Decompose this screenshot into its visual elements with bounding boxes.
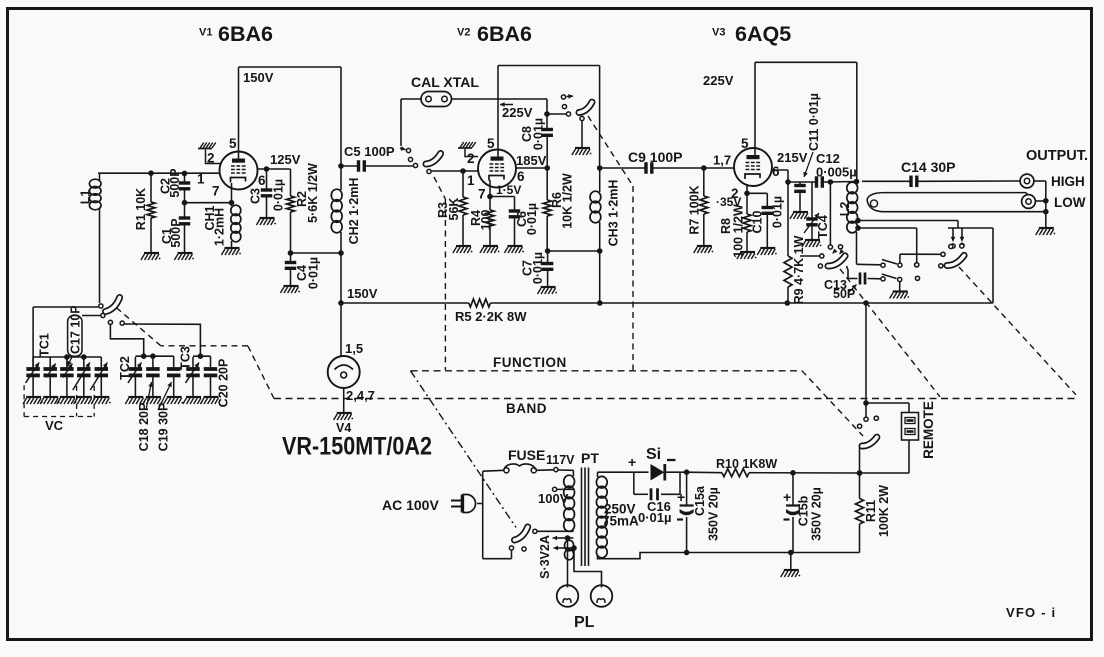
chassis hatch at V2 pin 2 — [458, 142, 478, 157]
switch contact cal-1 — [400, 146, 411, 152]
label OUTPUT — [1026, 148, 1088, 164]
svg-text:7: 7 — [478, 187, 486, 202]
svg-text:R11: R11 — [864, 500, 878, 522]
capacitor C2 500P — [159, 168, 191, 202]
svg-text:6BA6: 6BA6 — [218, 22, 273, 46]
FUNCTION dashed rail — [411, 355, 803, 371]
ground under C4 — [280, 286, 300, 293]
resistor R5 2.2K 8W — [455, 299, 527, 324]
wire heater 2 — [554, 545, 602, 587]
capacitor C15a 350V 20u — [677, 472, 721, 552]
svg-text:CAL XTAL: CAL XTAL — [411, 74, 479, 90]
wire C12 to L2 node — [824, 179, 859, 185]
label S-3V2A — [538, 535, 552, 579]
label V1 6BA6 — [199, 22, 273, 46]
tube V2 6BA6 — [478, 150, 516, 188]
svg-text:100: 100 — [479, 210, 493, 231]
diode Si — [628, 446, 676, 481]
svg-text:225V: 225V — [502, 105, 533, 120]
svg-text:185V: 185V — [516, 153, 547, 168]
label 125V — [270, 152, 301, 167]
svg-text:CH2 1·2mH: CH2 1·2mH — [347, 178, 361, 245]
svg-text:5·6K 1/2W: 5·6K 1/2W — [306, 163, 320, 223]
wire crystal right lead — [452, 99, 550, 117]
capacitor C18 20P — [137, 356, 159, 451]
svg-text:117V: 117V — [546, 453, 575, 467]
switch contact remote-2 — [874, 416, 878, 420]
switch wiper fn — [579, 102, 592, 112]
pin label 5 V3 — [741, 136, 749, 151]
svg-text:FUSE: FUSE — [508, 447, 545, 463]
variable capacitor VC section 1 — [26, 333, 52, 397]
label 150V top — [243, 70, 274, 85]
switch contact wafer-R3 — [939, 264, 943, 268]
capacitor C12 0.005u — [816, 151, 857, 188]
switch contact tap2 — [915, 263, 919, 267]
label 1.5V — [496, 183, 521, 197]
svg-text:C9 100P: C9 100P — [628, 149, 682, 165]
wire V3 cathode — [744, 184, 767, 196]
switch contact drop 1 — [951, 228, 956, 248]
ground under C6 — [504, 246, 524, 253]
ground under C11 — [790, 212, 810, 219]
rf-choke CH3 1.2mH — [590, 168, 621, 251]
wire V3 plate rail — [755, 62, 857, 181]
wire diode to R10 — [665, 469, 722, 475]
capacitor C9 100P — [600, 149, 704, 174]
switch wiper band — [104, 298, 121, 312]
ground under fn switch — [572, 148, 592, 155]
svg-text:2: 2 — [467, 151, 475, 166]
svg-text:V3: V3 — [712, 27, 725, 39]
chassis hatch at V1 pin 2 — [198, 143, 221, 164]
switch contact fn-2 — [562, 105, 566, 109]
svg-text:6AQ5: 6AQ5 — [735, 22, 791, 46]
trimmer TC4 — [804, 182, 830, 240]
VC dashed bracket — [24, 385, 94, 433]
ground under C3 — [256, 218, 276, 225]
switch contact wafer-L4 — [818, 264, 822, 268]
wire 150V rail down to C5 node — [340, 67, 342, 166]
wire R10 to remote node — [749, 470, 862, 476]
svg-text:100K 2W: 100K 2W — [877, 485, 891, 537]
ground under R4 — [480, 246, 500, 253]
svg-text:1·2mH: 1·2mH — [213, 208, 227, 246]
svg-text:REMOTE: REMOTE — [921, 401, 936, 459]
svg-text:0·01µ: 0·01µ — [307, 257, 321, 289]
svg-text:75mA: 75mA — [602, 514, 639, 529]
wire L2 tap lower — [858, 228, 917, 263]
capacitor C14 30P — [862, 159, 1020, 187]
wire secondary bottom to rail — [598, 550, 860, 559]
switch pivot fn — [580, 116, 584, 147]
wire V3 screen line — [771, 170, 816, 185]
svg-text:AC 100V: AC 100V — [382, 497, 439, 513]
svg-text:150V: 150V — [243, 70, 274, 85]
switch contact power spare — [522, 547, 526, 551]
resistor R3 56K — [436, 171, 467, 246]
resistor R2 5.6K 1/2W — [287, 163, 321, 253]
svg-text:1: 1 — [197, 172, 205, 187]
svg-text:OUTPUT.: OUTPUT. — [1026, 148, 1088, 164]
svg-text:0·01µ: 0·01µ — [272, 179, 286, 211]
rf-choke CH2 1.2mH — [331, 163, 361, 256]
wire ac box — [483, 470, 512, 558]
switch middle top row — [881, 260, 919, 268]
svg-text:C11 0·01µ: C11 0·01µ — [807, 93, 821, 151]
switch pivot power — [509, 546, 513, 559]
svg-text:0·01µ: 0·01µ — [771, 196, 785, 228]
linkage dashed fn-switch to FUNCTION rail — [588, 116, 633, 370]
ground under middle switch — [890, 292, 910, 299]
BAND dashed rail — [274, 399, 1076, 417]
label PL — [574, 614, 595, 631]
switch contact cal-3 — [413, 163, 417, 167]
svg-text:CH3 1·2mH: CH3 1·2mH — [607, 180, 621, 247]
ground under C10 — [757, 248, 777, 255]
svg-text:5: 5 — [229, 136, 237, 151]
svg-text:0·005µ: 0·005µ — [816, 165, 857, 180]
switch contact wafer-R2 — [960, 244, 964, 248]
ground under R7 — [694, 246, 714, 253]
label 35V — [716, 195, 741, 209]
svg-text:0·01µ: 0·01µ — [638, 510, 672, 525]
svg-text:5: 5 — [487, 136, 495, 151]
label 2,4,7 — [346, 388, 375, 403]
label HIGH — [1051, 174, 1085, 189]
svg-text:VC: VC — [45, 418, 64, 433]
svg-text:V2: V2 — [457, 27, 470, 39]
tube V3 6AQ5 — [734, 148, 772, 186]
capacitor C8 0.01u — [520, 114, 553, 168]
ground under CH1 — [221, 248, 241, 255]
resistor R10 1K 8W — [716, 457, 777, 477]
resistor R9 4.7K 1W — [784, 182, 806, 304]
inductor L1 — [79, 173, 101, 210]
ground under R8 — [737, 252, 757, 259]
svg-text:R1 10K: R1 10K — [134, 188, 148, 230]
inductor L2 — [838, 182, 861, 233]
wire heater 1 — [553, 535, 574, 587]
svg-text:HIGH: HIGH — [1051, 174, 1085, 189]
label AC 100V — [382, 497, 439, 513]
svg-text:225V: 225V — [703, 73, 734, 88]
capacitor C20 20P — [204, 356, 231, 407]
wire CH2 to 150V rail — [338, 253, 344, 306]
switch contact cal-2 — [408, 157, 412, 161]
switch contact 117V — [546, 453, 575, 472]
pin label 2 V1 — [207, 151, 215, 166]
switch contact remote-3 — [858, 424, 862, 428]
resistor R11 100K 2W — [856, 473, 892, 553]
wire bandswitch box right side — [992, 228, 994, 303]
switch contact band-L3 — [108, 320, 143, 354]
crystal CAL XTAL — [411, 74, 479, 107]
switch contact fn-1 — [561, 94, 573, 99]
svg-text:+: + — [783, 489, 791, 505]
svg-text:350V 20µ: 350V 20µ — [707, 487, 721, 541]
svg-text:56K: 56K — [447, 198, 461, 221]
pin label 7 V1 — [212, 184, 220, 199]
svg-text:V1: V1 — [199, 27, 212, 39]
VC capacitor bus — [33, 354, 101, 360]
variable capacitor VC section 3 C17 — [60, 357, 74, 397]
svg-text:PT: PT — [581, 450, 599, 466]
ground under VC5 — [91, 397, 111, 404]
TC2 capacitor bus — [118, 353, 174, 379]
ground under VC1 — [23, 397, 43, 404]
wire wafer-L pivot to C13 — [847, 266, 858, 279]
transformer secondary winding — [596, 472, 648, 558]
svg-text:C19 30P: C19 30P — [157, 403, 171, 452]
svg-text:2,4,7: 2,4,7 — [346, 388, 375, 403]
wire V1 screen node — [258, 166, 291, 196]
switch contact wafer-L1 — [828, 245, 837, 254]
resistor R4 100 — [469, 197, 494, 247]
wire C12 node to wafer contact — [829, 182, 831, 245]
wire V1 plate to 150V rail — [239, 67, 342, 159]
TC3 capacitor bus — [179, 346, 211, 370]
wire V4 to ground — [343, 388, 345, 413]
linkage dashed wafer-R to BAND — [959, 267, 1076, 395]
svg-text:BAND: BAND — [506, 401, 547, 416]
tube V1 6BA6 — [220, 152, 258, 190]
wire middle row to right wafer — [900, 252, 945, 263]
wire R6 bottom to CH3 bottom — [545, 248, 603, 254]
svg-text:VR-150MT/0A2: VR-150MT/0A2 — [282, 433, 432, 461]
svg-text:C15a: C15a — [693, 485, 707, 516]
svg-text:10K 1/2W: 10K 1/2W — [561, 173, 575, 229]
linkage dashed wafer-L to BAND — [840, 269, 940, 397]
wire C13 node down to remote switch — [863, 303, 909, 413]
capacitor C3 0.01u — [249, 169, 286, 218]
svg-text:0·01µ: 0·01µ — [532, 118, 546, 150]
svg-text:TC1: TC1 — [38, 333, 52, 357]
svg-text:C20 20P: C20 20P — [217, 359, 231, 408]
wire VC left lead — [32, 307, 34, 369]
switch middle bottom row — [881, 274, 920, 282]
capacitor C19 30P — [157, 356, 181, 451]
ac plug — [451, 495, 483, 513]
wire 150V rail — [341, 286, 993, 306]
svg-text:C10: C10 — [751, 210, 765, 233]
svg-text:S·3V2A: S·3V2A — [538, 535, 552, 579]
switch contact wafer-L2 — [838, 245, 844, 254]
svg-text:TC4: TC4 — [816, 215, 830, 239]
switch wiper wafer-L — [828, 254, 845, 268]
wire primary bottom to switch — [537, 530, 573, 533]
svg-text:C18 20P: C18 20P — [137, 403, 151, 452]
capacitor C7 0.01u — [521, 251, 554, 287]
wire fuse to 117V contact — [536, 469, 554, 472]
ground under C19 — [164, 397, 184, 404]
wire L2 tap upper to bandswitch box — [858, 221, 993, 229]
switch contact power — [533, 529, 537, 533]
ground under TC4 — [802, 240, 822, 247]
svg-text:6: 6 — [772, 164, 780, 179]
svg-text:C17 10P: C17 10P — [69, 305, 83, 354]
svg-text:C5 100P: C5 100P — [344, 144, 395, 159]
linkage dashed BAND left — [116, 307, 274, 399]
switch contact wafer-R1 — [949, 244, 953, 248]
trimmer TC3 — [186, 357, 200, 397]
wire C9 to V3 grid — [701, 165, 735, 171]
ground under V4 — [334, 413, 354, 420]
ground under R3 — [453, 246, 473, 253]
label 215V — [777, 150, 808, 165]
svg-text:100 1/2W: 100 1/2W — [732, 204, 746, 258]
switch contact wafer-L3 — [800, 254, 824, 258]
svg-text:C3: C3 — [249, 188, 263, 204]
resistor R8 100 1/2W — [719, 193, 751, 257]
capacitor C13 50P — [824, 273, 881, 302]
switch pivot contact cal — [427, 169, 431, 173]
svg-text:VFO - i: VFO - i — [1006, 605, 1056, 620]
capacitor C1 500P — [160, 203, 190, 253]
svg-text:R10 1K8W: R10 1K8W — [716, 457, 777, 471]
switch contact band-L4 — [120, 321, 200, 354]
switch contact drop 2 — [960, 228, 965, 248]
svg-text:1·5V: 1·5V — [496, 183, 521, 197]
pilot lamp PL 1 — [557, 585, 579, 607]
transformer heater winding S — [565, 540, 574, 560]
variable capacitor VC section 4 — [73, 357, 91, 397]
pin label 6 V3 — [772, 164, 780, 179]
ground under C18 — [143, 397, 163, 404]
switch contact band-L1 — [33, 304, 103, 308]
variable capacitor VC section 5 — [90, 357, 108, 397]
svg-text:TC3: TC3 — [179, 346, 193, 370]
output jack HIGH — [1020, 174, 1034, 188]
ground under R1 — [141, 253, 161, 260]
wire remote wiper down — [857, 447, 863, 476]
wire C8 node to function contact — [547, 113, 566, 115]
fuse — [504, 447, 546, 473]
capacitor C11 0.01u — [794, 93, 821, 212]
capacitor C6 0.01u — [509, 197, 539, 247]
transformer core — [582, 468, 589, 567]
svg-text:C14 30P: C14 30P — [901, 159, 955, 175]
svg-text:215V: 215V — [777, 150, 808, 165]
pin label 6 V1 — [258, 173, 266, 188]
switch contact 100V — [538, 487, 573, 506]
svg-text:R9 4·7K 1W: R9 4·7K 1W — [792, 235, 806, 304]
svg-text:+: + — [677, 489, 685, 505]
svg-text:500P: 500P — [169, 218, 183, 247]
svg-text:5: 5 — [741, 136, 749, 151]
pin label 6 V2 — [517, 169, 525, 184]
svg-text:6BA6: 6BA6 — [477, 22, 532, 46]
pin label 5 V2 — [487, 136, 495, 151]
label 225V V3 — [703, 73, 734, 88]
ground under C7 — [538, 287, 558, 294]
transformer primary winding — [558, 470, 574, 531]
node cathode tap — [182, 200, 235, 206]
linkage dashed FUNCTION to AC switch — [411, 371, 517, 528]
label 250V 75mA — [602, 502, 639, 529]
wire HIGH jack to ground line — [1034, 181, 1049, 228]
pin label 1 V1 — [197, 172, 205, 187]
tube V4 VR-150MT — [328, 356, 360, 388]
svg-text:500P: 500P — [168, 168, 182, 197]
capacitor C5 100P — [341, 144, 413, 172]
label VFO-i — [1006, 605, 1056, 620]
capacitor C16 0.01u bridge — [634, 472, 680, 525]
capacitor C10 0.01u — [751, 193, 785, 248]
ground under VC3 — [57, 397, 77, 404]
label V3 6AQ5 — [712, 22, 791, 46]
capacitor C4 0.01u — [285, 253, 321, 289]
svg-text:125V: 125V — [270, 152, 301, 167]
switch wiper wafer-R — [947, 253, 964, 267]
svg-text:0·01µ: 0·01µ — [525, 203, 539, 235]
ground under C1 — [174, 253, 194, 260]
svg-text:350V 20µ: 350V 20µ — [810, 487, 824, 541]
ground under output — [1036, 228, 1056, 235]
wire L2 bottom lead — [857, 232, 881, 265]
svg-text:1: 1 — [467, 173, 475, 188]
pin label 5 V1 — [229, 136, 237, 151]
linkage dashed cal-switch to FUNCTION — [434, 177, 445, 370]
switch contact fn-3 — [566, 112, 570, 116]
wire remote to R10 line — [860, 440, 910, 473]
svg-text:FUNCTION: FUNCTION — [493, 355, 567, 370]
svg-text:LOW: LOW — [1054, 195, 1086, 210]
ground under TC2 — [125, 397, 145, 404]
svg-text:6: 6 — [517, 169, 525, 184]
pin label 2 V2 — [467, 151, 475, 166]
ground under TC3 — [183, 397, 203, 404]
svg-text:L1: L1 — [79, 190, 93, 205]
link winding hairpin — [867, 193, 1046, 212]
svg-text:L2: L2 — [838, 202, 852, 217]
svg-text:1,7: 1,7 — [713, 153, 731, 168]
transformer PT label — [581, 450, 599, 466]
rf-choke CH1 1.2mH — [203, 183, 241, 248]
output jack LOW — [1022, 195, 1046, 209]
svg-text:6: 6 — [258, 173, 266, 188]
svg-text:R5 2·2K 8W: R5 2·2K 8W — [455, 309, 527, 324]
remote connector — [902, 401, 937, 459]
svg-text:0·01µ: 0·01µ — [531, 252, 545, 284]
label VR-150MT/OA2 — [282, 433, 432, 461]
pin label 2 V3 — [731, 186, 739, 201]
wire V1 grid line — [98, 170, 220, 176]
variable capacitor VC section 2 — [43, 357, 57, 397]
switch wiper cal — [426, 153, 441, 165]
resistor R1 10K — [134, 173, 155, 253]
ground under power rail — [781, 570, 801, 577]
svg-text:7: 7 — [212, 184, 220, 199]
wire middle ground drop — [899, 282, 901, 291]
label 185V — [516, 153, 547, 168]
switch contact remote-1 — [864, 405, 868, 421]
svg-text:C15b: C15b — [797, 495, 811, 526]
label 1,7 V3 grid — [713, 153, 731, 168]
wire cal wiper to V2 grid — [431, 168, 478, 174]
wire V2 screen to 185V node — [516, 165, 603, 171]
callout box C17 10P — [68, 305, 83, 366]
resistor R7 100K — [688, 168, 708, 246]
capacitor C15b 350V 20u — [783, 473, 824, 553]
svg-text:R7 100K: R7 100K — [688, 185, 702, 234]
switch wiper remote — [862, 435, 877, 448]
wire R2 bottom to CH2 node — [288, 250, 341, 256]
pilot lamp PL 2 — [591, 585, 613, 607]
ground under C20 — [200, 397, 220, 404]
switch contact band-L2 — [82, 313, 105, 317]
wire CH3 to 150V rail — [597, 251, 603, 306]
